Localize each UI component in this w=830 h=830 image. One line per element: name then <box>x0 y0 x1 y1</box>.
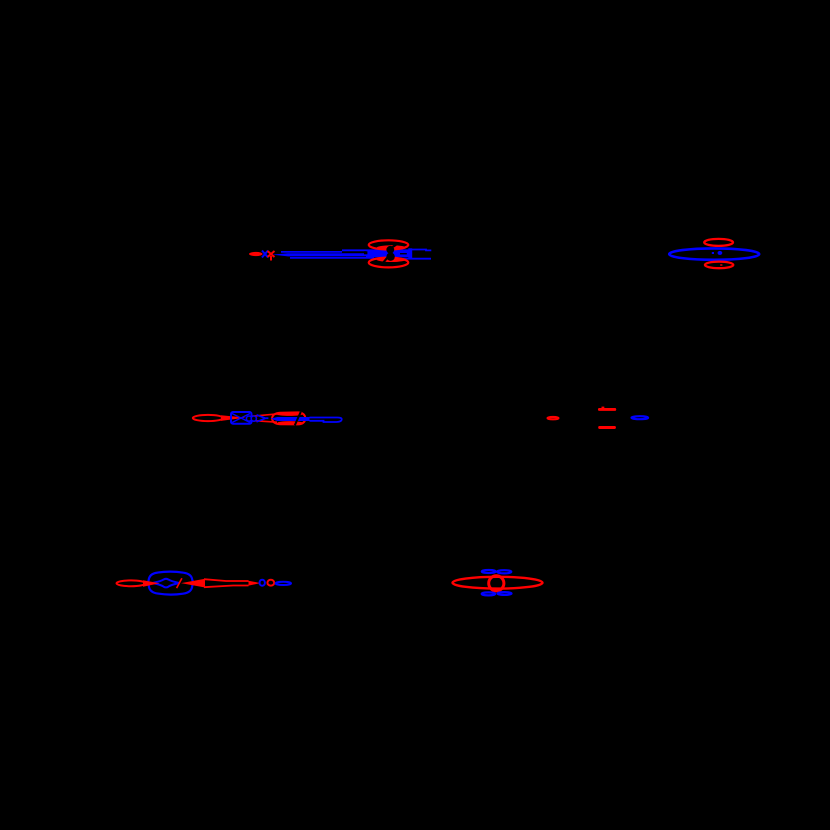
blue ringed node 2 <box>251 416 256 421</box>
red filled tip <box>249 581 261 586</box>
blue ringed node 1 <box>246 416 251 421</box>
red bottom bar <box>598 426 616 429</box>
red elongated contour <box>204 579 249 587</box>
blue bottom ring 2 <box>498 592 512 595</box>
orbital plot 3 (middle-left sigma* MO) <box>193 412 342 426</box>
red core lobe left <box>249 252 263 256</box>
blue top ring 1 <box>482 570 496 573</box>
black atom blob <box>386 246 394 254</box>
blue equatorial ellipse <box>669 248 759 259</box>
orbital plot 6 (bottom-middle pi MO) <box>453 570 543 595</box>
blue right bar <box>408 248 412 258</box>
red wedge out of flower <box>181 579 205 588</box>
orbital plot 1 (top-middle sigma MO) <box>249 240 431 267</box>
blue top ring 2 <box>497 570 511 573</box>
red lower lobe <box>705 262 733 269</box>
red lower ring <box>369 258 409 268</box>
red top bar <box>598 408 616 411</box>
blue nodal X <box>262 251 268 258</box>
blue flower outer <box>148 572 194 595</box>
red upper ring <box>369 240 409 249</box>
blue end hook <box>337 417 342 422</box>
blue box <box>231 412 252 424</box>
orbital plot 5 (bottom-left sigma MO) <box>117 572 291 595</box>
red equatorial ellipse <box>453 577 543 589</box>
black notch left <box>364 251 367 254</box>
red right ring <box>272 412 305 424</box>
blue bottom ring 1 <box>482 592 495 595</box>
blue right contour <box>310 418 337 423</box>
red left lens <box>193 415 223 421</box>
red small ring <box>548 417 559 419</box>
blue top contour line <box>281 250 431 252</box>
blue converging tip <box>257 415 266 422</box>
red wedge into flower <box>143 580 160 586</box>
blue inner star <box>153 579 180 588</box>
blue central band <box>272 253 412 256</box>
blue speck <box>712 252 714 254</box>
blue bulge near rings <box>366 251 410 258</box>
orbital plot 4 (middle-right weak contours) <box>548 407 649 429</box>
red upper lobe <box>704 239 733 246</box>
black nodal slash upper <box>390 244 397 249</box>
red lower crescent <box>278 421 303 424</box>
blue bottom contour line <box>290 257 431 260</box>
red diverging lines <box>252 414 277 422</box>
red fleck <box>720 264 722 265</box>
black nodal slash <box>295 412 301 426</box>
red nodal X with tick <box>268 251 275 261</box>
red wedge <box>221 415 246 421</box>
orbital plot 2 (top-right pi MO) <box>669 239 759 268</box>
blue ringed atom <box>260 580 265 586</box>
red upper crescent <box>377 245 407 250</box>
red nodal slash <box>177 578 182 588</box>
blue central band <box>271 417 310 421</box>
red ringed atom <box>267 580 274 586</box>
red nucleus circle <box>489 576 504 591</box>
blue small ring <box>632 416 649 419</box>
red left lens <box>117 580 146 586</box>
black notch right <box>400 253 407 254</box>
blue nucleus dot <box>718 251 723 255</box>
blue end ellipse <box>276 582 291 585</box>
red top bar tick <box>602 407 605 409</box>
red upper crescent <box>277 413 303 416</box>
red lower crescent <box>377 257 407 262</box>
blue box diagonals <box>232 414 250 423</box>
blue tip dot <box>266 417 268 419</box>
black nodal slash lower <box>382 257 389 265</box>
